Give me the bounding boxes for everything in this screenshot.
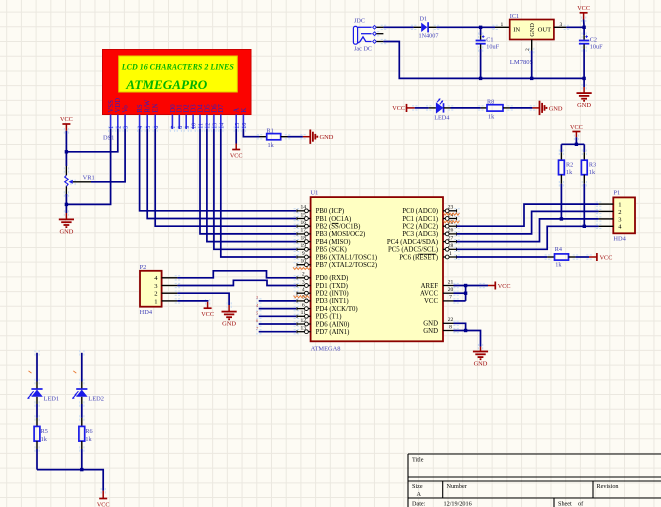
- wire LCD D4 to U1: [200, 129, 296, 234]
- svg-text:12: 12: [206, 123, 212, 129]
- no-ERC marker PB7: [293, 267, 311, 269]
- resistor R2 1k: [559, 144, 574, 183]
- wire LCD K(pin16) to R1: [243, 129, 259, 137]
- wire R2 down to PC4 net: [560, 184, 562, 219]
- svg-text:R6: R6: [85, 428, 92, 435]
- wire VDD(pin2) to VCC: [66, 129, 117, 152]
- svg-text:GND: GND: [423, 328, 438, 335]
- svg-text:HD4: HD4: [140, 309, 153, 316]
- svg-text:VCC: VCC: [600, 254, 613, 261]
- wire to PD net 5: [259, 315, 297, 317]
- svg-text:15: 15: [301, 212, 307, 218]
- svg-text:PD1 (TXD): PD1 (TXD): [316, 283, 348, 290]
- wire LED4 to R8: [451, 107, 481, 109]
- svg-text:23: 23: [448, 205, 454, 211]
- svg-text:PC3 (ADC3): PC3 (ADC3): [402, 231, 438, 238]
- svg-text:ATMEGAPRO: ATMEGAPRO: [125, 77, 208, 92]
- svg-text:OUT: OUT: [538, 27, 552, 34]
- node junction VSS/VR1/GND: [65, 203, 68, 206]
- svg-text:VCC: VCC: [201, 311, 214, 318]
- svg-text:PD6 (AIN0): PD6 (AIN0): [316, 321, 350, 328]
- wire P2 pin1 to VCC: [177, 300, 207, 303]
- svg-text:2: 2: [116, 126, 122, 129]
- svg-text:1N4007: 1N4007: [419, 32, 439, 39]
- no-ERC marker PC0: [444, 213, 460, 215]
- svg-text:14: 14: [301, 205, 307, 211]
- svg-text:VCC: VCC: [570, 124, 583, 131]
- wire to PD net 3: [259, 300, 297, 302]
- svg-text:8: 8: [178, 126, 184, 129]
- LCD pin 4 (RS): [137, 104, 144, 129]
- U1 pin 27 PC4: [443, 235, 457, 243]
- svg-text:PC6 (RESET): PC6 (RESET): [399, 254, 438, 261]
- svg-text:2: 2: [618, 209, 621, 216]
- power port VCC above R2/R3: [570, 124, 583, 144]
- svg-text:GND: GND: [320, 134, 334, 141]
- resistor R8 1k: [481, 99, 510, 121]
- diode D1 1N4007: [414, 15, 439, 39]
- ground GND left: [59, 204, 74, 235]
- LCD pin 14 (D7): [218, 104, 225, 129]
- ground GND at P2: [222, 305, 237, 328]
- wire LCD A(pin15) to VCC: [235, 129, 237, 144]
- svg-text:3: 3: [560, 22, 563, 28]
- U1 pin 11 PD5: [297, 310, 311, 318]
- svg-text:1: 1: [501, 22, 504, 28]
- svg-text:LCD 16 CHARACTERS 2 LINES: LCD 16 CHARACTERS 2 LINES: [121, 63, 235, 72]
- no-ERC marker PC1: [444, 221, 460, 223]
- svg-text:A: A: [417, 491, 422, 498]
- wire LCD D5 to U1: [207, 129, 296, 242]
- svg-text:R2: R2: [566, 161, 573, 168]
- svg-text:Size: Size: [412, 483, 423, 490]
- svg-text:26: 26: [448, 228, 454, 234]
- svg-text:4: 4: [256, 303, 258, 308]
- power port VCC at P2: [201, 302, 214, 318]
- svg-text:PD2 (INT0): PD2 (INT0): [316, 291, 349, 298]
- LCD display DS1 body: [103, 50, 252, 142]
- svg-text:21: 21: [448, 279, 454, 285]
- U1 pin 19 PB5: [297, 243, 311, 251]
- capacitor C1 10uF: [476, 27, 500, 78]
- svg-text:VCC: VCC: [97, 501, 110, 507]
- svg-text:PB2 (SS/OC1B): PB2 (SS/OC1B): [316, 224, 361, 231]
- wire to PD net 6: [259, 323, 297, 325]
- svg-text:LED4: LED4: [434, 115, 449, 122]
- svg-text:VCC: VCC: [498, 283, 511, 290]
- svg-text:12/19/2016: 12/19/2016: [444, 501, 472, 507]
- wire ground rail (jack to C2): [383, 42, 584, 79]
- wire P2 pin2 to GND: [177, 293, 229, 305]
- svg-text:C1: C1: [486, 36, 493, 43]
- svg-text:R4: R4: [555, 246, 562, 253]
- svg-text:EN: EN: [153, 103, 160, 112]
- power port VCC at AREF: [488, 282, 511, 290]
- svg-text:PC0 (ADC0): PC0 (ADC0): [402, 208, 438, 215]
- svg-text:5: 5: [146, 126, 152, 129]
- wire VR1 to GND: [65, 194, 67, 204]
- LCD pin 6 (EN): [153, 103, 160, 129]
- svg-text:27: 27: [448, 235, 454, 241]
- wire R6 down: [81, 449, 83, 470]
- svg-text:1k: 1k: [85, 436, 92, 443]
- svg-text:PD0 (RXD): PD0 (RXD): [316, 275, 349, 282]
- svg-text:ATMEGA8: ATMEGA8: [311, 345, 341, 352]
- wire LED2 to R6: [81, 404, 83, 418]
- LED LED2: [72, 382, 104, 405]
- U1 pin 28 PC5: [443, 243, 457, 251]
- svg-text:8: 8: [449, 324, 452, 330]
- wire LED1 to R5: [36, 404, 38, 418]
- svg-text:16: 16: [301, 220, 307, 226]
- wire R4 to VCC: [575, 256, 589, 258]
- LCD pin 7 (D0): [170, 104, 177, 129]
- svg-text:1k: 1k: [268, 142, 275, 149]
- svg-text:C2: C2: [590, 36, 597, 43]
- svg-text:1: 1: [618, 202, 621, 209]
- ground GND power supply: [577, 78, 592, 109]
- node junction D1/C1: [479, 26, 482, 29]
- svg-text:20: 20: [448, 287, 454, 293]
- svg-text:Sheet: Sheet: [558, 501, 572, 507]
- svg-text:GND: GND: [222, 321, 236, 328]
- LCD pin 16 (K): [241, 108, 248, 129]
- node junction C1/rail: [479, 77, 482, 80]
- svg-text:PD3 (INT1): PD3 (INT1): [316, 298, 349, 305]
- wire to PD net 7: [259, 331, 297, 333]
- svg-text:HD4: HD4: [613, 236, 626, 243]
- wire U1 GND pins to ground: [454, 323, 466, 330]
- svg-text:9: 9: [302, 251, 305, 257]
- svg-text:GND: GND: [577, 102, 591, 109]
- LCD pin 11 (D4): [197, 104, 204, 129]
- wire R8 to GND: [510, 107, 532, 109]
- wire PC2 to P1 pin1: [457, 204, 599, 226]
- svg-text:Revision: Revision: [597, 483, 619, 490]
- svg-text:3: 3: [124, 126, 130, 129]
- ground GND port (sideways) at R8: [532, 101, 563, 115]
- svg-text:PB5 (SCK): PB5 (SCK): [316, 247, 347, 254]
- svg-text:DS1: DS1: [103, 134, 114, 141]
- svg-text:Date:: Date:: [412, 501, 426, 507]
- svg-text:14: 14: [219, 123, 225, 129]
- svg-text:AREF: AREF: [421, 283, 439, 290]
- LCD pin 3 (Vo): [123, 105, 130, 129]
- svg-text:VSS: VSS: [108, 100, 115, 113]
- svg-text:17: 17: [301, 228, 307, 234]
- power port VCC top right: [577, 5, 590, 28]
- svg-text:VR1: VR1: [83, 175, 95, 182]
- U1 pin 6 PD4: [297, 302, 311, 310]
- svg-text:R3: R3: [589, 161, 596, 168]
- svg-text:D7: D7: [218, 104, 225, 113]
- LCD pin 2 (VDD): [115, 98, 122, 129]
- svg-text:PC1 (ADC1): PC1 (ADC1): [402, 216, 438, 223]
- wire R1 to GND: [288, 136, 303, 138]
- svg-text:PB1 (OC1A): PB1 (OC1A): [316, 216, 352, 223]
- LCD pin 10 (D3): [191, 104, 198, 129]
- wire VCC join: [454, 300, 466, 302]
- svg-text:7: 7: [449, 295, 452, 301]
- node junction rail corner: [582, 77, 585, 80]
- power port VCC bottom: [97, 491, 110, 507]
- svg-text:6: 6: [154, 126, 160, 129]
- wire LCD RS to U1: [140, 129, 297, 211]
- svg-text:PB7 (XTAL2/TOSC2): PB7 (XTAL2/TOSC2): [316, 262, 377, 269]
- LCD pin 1 (VSS): [108, 100, 115, 129]
- node junction VCC/VDD: [65, 150, 68, 153]
- svg-text:9: 9: [185, 126, 191, 129]
- svg-text:3: 3: [256, 295, 258, 300]
- U1 pin 25 PC2: [443, 220, 457, 228]
- wire R3 down to PC5 net: [583, 184, 585, 227]
- U1 pin 14 PB0: [297, 205, 311, 213]
- svg-text:R8: R8: [487, 99, 494, 106]
- svg-text:PD4 (XCK/T0): PD4 (XCK/T0): [316, 306, 358, 313]
- net marker LED1: [29, 371, 32, 373]
- resistor R1 1k: [260, 127, 288, 149]
- svg-text:13: 13: [301, 326, 307, 332]
- U1 pin 1 PC6: [443, 251, 457, 259]
- U1 pin 24 PC1: [443, 212, 457, 220]
- power port VCC at LED4 row: [392, 104, 414, 112]
- svg-text:10uF: 10uF: [590, 44, 603, 51]
- svg-text:A: A: [234, 108, 241, 113]
- svg-text:Title: Title: [412, 457, 424, 464]
- svg-text:1k: 1k: [488, 113, 495, 120]
- svg-text:D5: D5: [204, 104, 211, 113]
- LCD pin 15 (A): [234, 108, 241, 129]
- svg-text:P1: P1: [613, 190, 620, 197]
- U1 pin 21 AREF: [443, 279, 457, 285]
- svg-text:Number: Number: [447, 483, 467, 490]
- svg-text:VDD: VDD: [115, 98, 122, 113]
- U1 pin 5 PD3: [297, 295, 311, 303]
- wire R5 down: [36, 449, 38, 470]
- svg-text:2: 2: [154, 291, 157, 298]
- svg-text:K: K: [241, 108, 248, 113]
- net marker LED2: [73, 371, 76, 373]
- connector JDC (Jac DC power jack): [353, 18, 383, 53]
- svg-text:PC2 (ADC2): PC2 (ADC2): [402, 224, 438, 231]
- svg-text:28: 28: [448, 243, 454, 249]
- svg-text:R5: R5: [41, 428, 48, 435]
- svg-text:1: 1: [449, 251, 452, 257]
- U1 pin 8 GND: [443, 324, 457, 330]
- IC1 pin3 to VCC: [554, 26, 566, 28]
- voltage regulator IC1 LM7805: [510, 13, 554, 66]
- svg-text:PD5 (T1): PD5 (T1): [316, 314, 342, 321]
- U1 pin 4 PD2: [297, 287, 311, 295]
- node junction R2/PC4: [560, 217, 563, 220]
- LCD pin 8 (D1): [177, 104, 184, 129]
- U1 pin 26 PC3: [443, 228, 457, 236]
- wire P2 pin3 to PD1: [177, 280, 296, 285]
- wire AREF to VCC: [454, 285, 489, 287]
- U1 pin 2 PD0: [297, 272, 311, 280]
- svg-text:3: 3: [302, 279, 305, 285]
- wire D1 to C1/IC1 pin1: [436, 26, 495, 28]
- svg-text:LED2: LED2: [88, 396, 104, 403]
- svg-text:PB4 (MISO): PB4 (MISO): [316, 239, 351, 246]
- wire AVCC/VCC vertical: [465, 286, 467, 301]
- capacitor C2 10uF: [579, 27, 603, 78]
- wire LED2 top: [81, 353, 83, 382]
- svg-text:GND: GND: [549, 105, 563, 112]
- svg-text:12: 12: [301, 318, 307, 324]
- svg-text:16: 16: [242, 123, 248, 129]
- title block text: [412, 457, 619, 507]
- svg-text:PD7 (AIN1): PD7 (AIN1): [316, 329, 350, 336]
- svg-text:1k: 1k: [566, 169, 573, 176]
- svg-text:Jac DC: Jac DC: [354, 46, 372, 53]
- U1 pin 17 PB3: [297, 228, 311, 236]
- svg-text:LED1: LED1: [44, 396, 60, 403]
- node junction IC1out/C2/VCC: [582, 26, 585, 29]
- svg-text:1: 1: [109, 126, 115, 129]
- no-ERC marker PD2: [294, 296, 310, 298]
- wire LCD D7 to U1: [221, 129, 296, 257]
- wire Vo(pin3) to VR1 wiper: [91, 129, 125, 182]
- svg-text:LM7805: LM7805: [510, 59, 534, 66]
- ground GND below U1: [473, 347, 488, 368]
- wire PC3 to P1 pin2: [457, 211, 599, 234]
- resistor R6 1k: [79, 418, 93, 449]
- wire LED rail to VCC: [37, 470, 103, 491]
- wire PC6 to R4: [457, 256, 548, 258]
- wire to PD net 4: [259, 308, 297, 310]
- U1 pin 23 PC0: [443, 205, 457, 213]
- svg-text:19: 19: [301, 243, 307, 249]
- op IC U1 ATMEGA8 body: [311, 190, 444, 353]
- svg-text:IN: IN: [513, 27, 520, 34]
- svg-text:GND: GND: [423, 321, 438, 328]
- svg-text:11: 11: [199, 123, 205, 129]
- node junction IC1pin2/rail: [530, 77, 533, 80]
- wire jack pin1 to D1: [383, 26, 413, 28]
- U1 pin 3 PD1: [297, 279, 311, 287]
- svg-text:15: 15: [235, 123, 241, 129]
- svg-text:PB0 (ICP): PB0 (ICP): [316, 208, 345, 215]
- svg-text:7: 7: [171, 126, 177, 129]
- LCD pin 9 (D2): [184, 104, 191, 129]
- svg-text:VCC: VCC: [230, 152, 243, 159]
- wire AVCC join: [454, 292, 466, 294]
- U1 pin 7 VCC: [443, 295, 457, 301]
- U1 pin 10 PB7: [297, 259, 311, 267]
- wire LCD EN to U1: [155, 129, 296, 226]
- svg-text:VCC: VCC: [577, 5, 590, 12]
- U1 pin 13 PD7: [297, 326, 311, 334]
- svg-text:10uF: 10uF: [486, 44, 499, 51]
- IC1 pin2 (GND): [531, 40, 533, 51]
- resistor R5 1k: [34, 418, 48, 449]
- svg-text:1: 1: [154, 298, 157, 305]
- U1 pin 22 GND: [443, 317, 457, 323]
- power port VCC at R4: [589, 253, 612, 261]
- resistor R4 1k: [547, 246, 575, 268]
- svg-text:1k: 1k: [555, 261, 562, 268]
- svg-text:JDC: JDC: [354, 18, 365, 25]
- LED LED1: [27, 382, 59, 405]
- svg-text:10: 10: [192, 123, 198, 129]
- connector P1 HD4: [599, 190, 635, 243]
- svg-text:AVCC: AVCC: [420, 291, 438, 298]
- svg-text:VCC: VCC: [392, 105, 405, 112]
- U1 pin 12 PD6: [297, 318, 311, 326]
- svg-text:VCC: VCC: [60, 116, 73, 123]
- svg-text:Vo: Vo: [123, 105, 130, 113]
- svg-text:2: 2: [302, 272, 305, 278]
- wire PC5 to P1 pin4: [457, 226, 599, 249]
- potentiometer VR1: [65, 152, 95, 196]
- U1 pin 20 AVCC: [443, 287, 457, 293]
- svg-text:GND: GND: [529, 23, 536, 37]
- title block: [408, 454, 661, 507]
- wire VCC split to R2/R3: [561, 143, 584, 145]
- ground GND port at R1: [303, 130, 334, 144]
- U1 pin 9 PB6: [297, 251, 311, 259]
- svg-text:PB6 (XTAL1/TOSC1): PB6 (XTAL1/TOSC1): [316, 254, 377, 261]
- svg-text:PC4 (ADC4/SDA): PC4 (ADC4/SDA): [387, 239, 438, 246]
- wire LED1 top: [36, 353, 38, 382]
- svg-text:1k: 1k: [589, 169, 596, 176]
- svg-text:D1: D1: [420, 15, 428, 22]
- svg-text:5: 5: [256, 311, 258, 316]
- LCD pin 5 (R/W): [145, 99, 152, 129]
- svg-text:PB3 (MOSI/OC2): PB3 (MOSI/OC2): [316, 231, 366, 238]
- U1 pin 15 PB1: [297, 212, 311, 220]
- wire PC4 to P1 pin3: [457, 219, 599, 242]
- svg-text:6: 6: [302, 302, 305, 308]
- svg-text:GND: GND: [474, 360, 488, 367]
- LCD pin 13 (D6): [211, 104, 218, 129]
- svg-text:4: 4: [302, 287, 305, 293]
- LCD pin 12 (D5): [204, 104, 211, 129]
- power port VCC at LCD backlight: [230, 144, 243, 160]
- svg-text:RS: RS: [137, 104, 144, 113]
- svg-text:R1: R1: [267, 127, 274, 134]
- svg-text:11: 11: [301, 310, 307, 316]
- svg-text:GND: GND: [59, 228, 73, 235]
- svg-text:10: 10: [301, 259, 307, 265]
- power port VCC left: [60, 116, 73, 152]
- svg-text:18: 18: [301, 235, 307, 241]
- svg-text:1k: 1k: [41, 436, 48, 443]
- node junction R6/rail: [80, 468, 83, 471]
- wire VCC to LED4: [415, 107, 429, 109]
- wire LCD R/W to U1: [147, 129, 296, 219]
- svg-text:PC5 (ADC5/SCL): PC5 (ADC5/SCL): [388, 247, 438, 254]
- svg-text:R/W: R/W: [145, 99, 152, 112]
- resistor R3 1k: [581, 144, 596, 183]
- node junction R3/PC5: [583, 225, 586, 228]
- svg-text:22: 22: [448, 317, 454, 323]
- U1 pin 16 PB2: [297, 220, 311, 228]
- svg-text:VCC: VCC: [424, 298, 438, 305]
- wire VSS(pin1) to GND node: [66, 129, 110, 204]
- wire P2 pin4 to PD0: [177, 271, 296, 278]
- LED LED4: [429, 98, 451, 121]
- svg-text:2: 2: [525, 48, 531, 51]
- svg-text:4: 4: [138, 126, 144, 129]
- wire LCD D6 to U1: [214, 129, 296, 249]
- connector P2 HD4: [140, 264, 178, 316]
- svg-text:13: 13: [213, 123, 219, 129]
- U1 pin 18 PB4: [297, 235, 311, 243]
- svg-text:U1: U1: [311, 190, 319, 197]
